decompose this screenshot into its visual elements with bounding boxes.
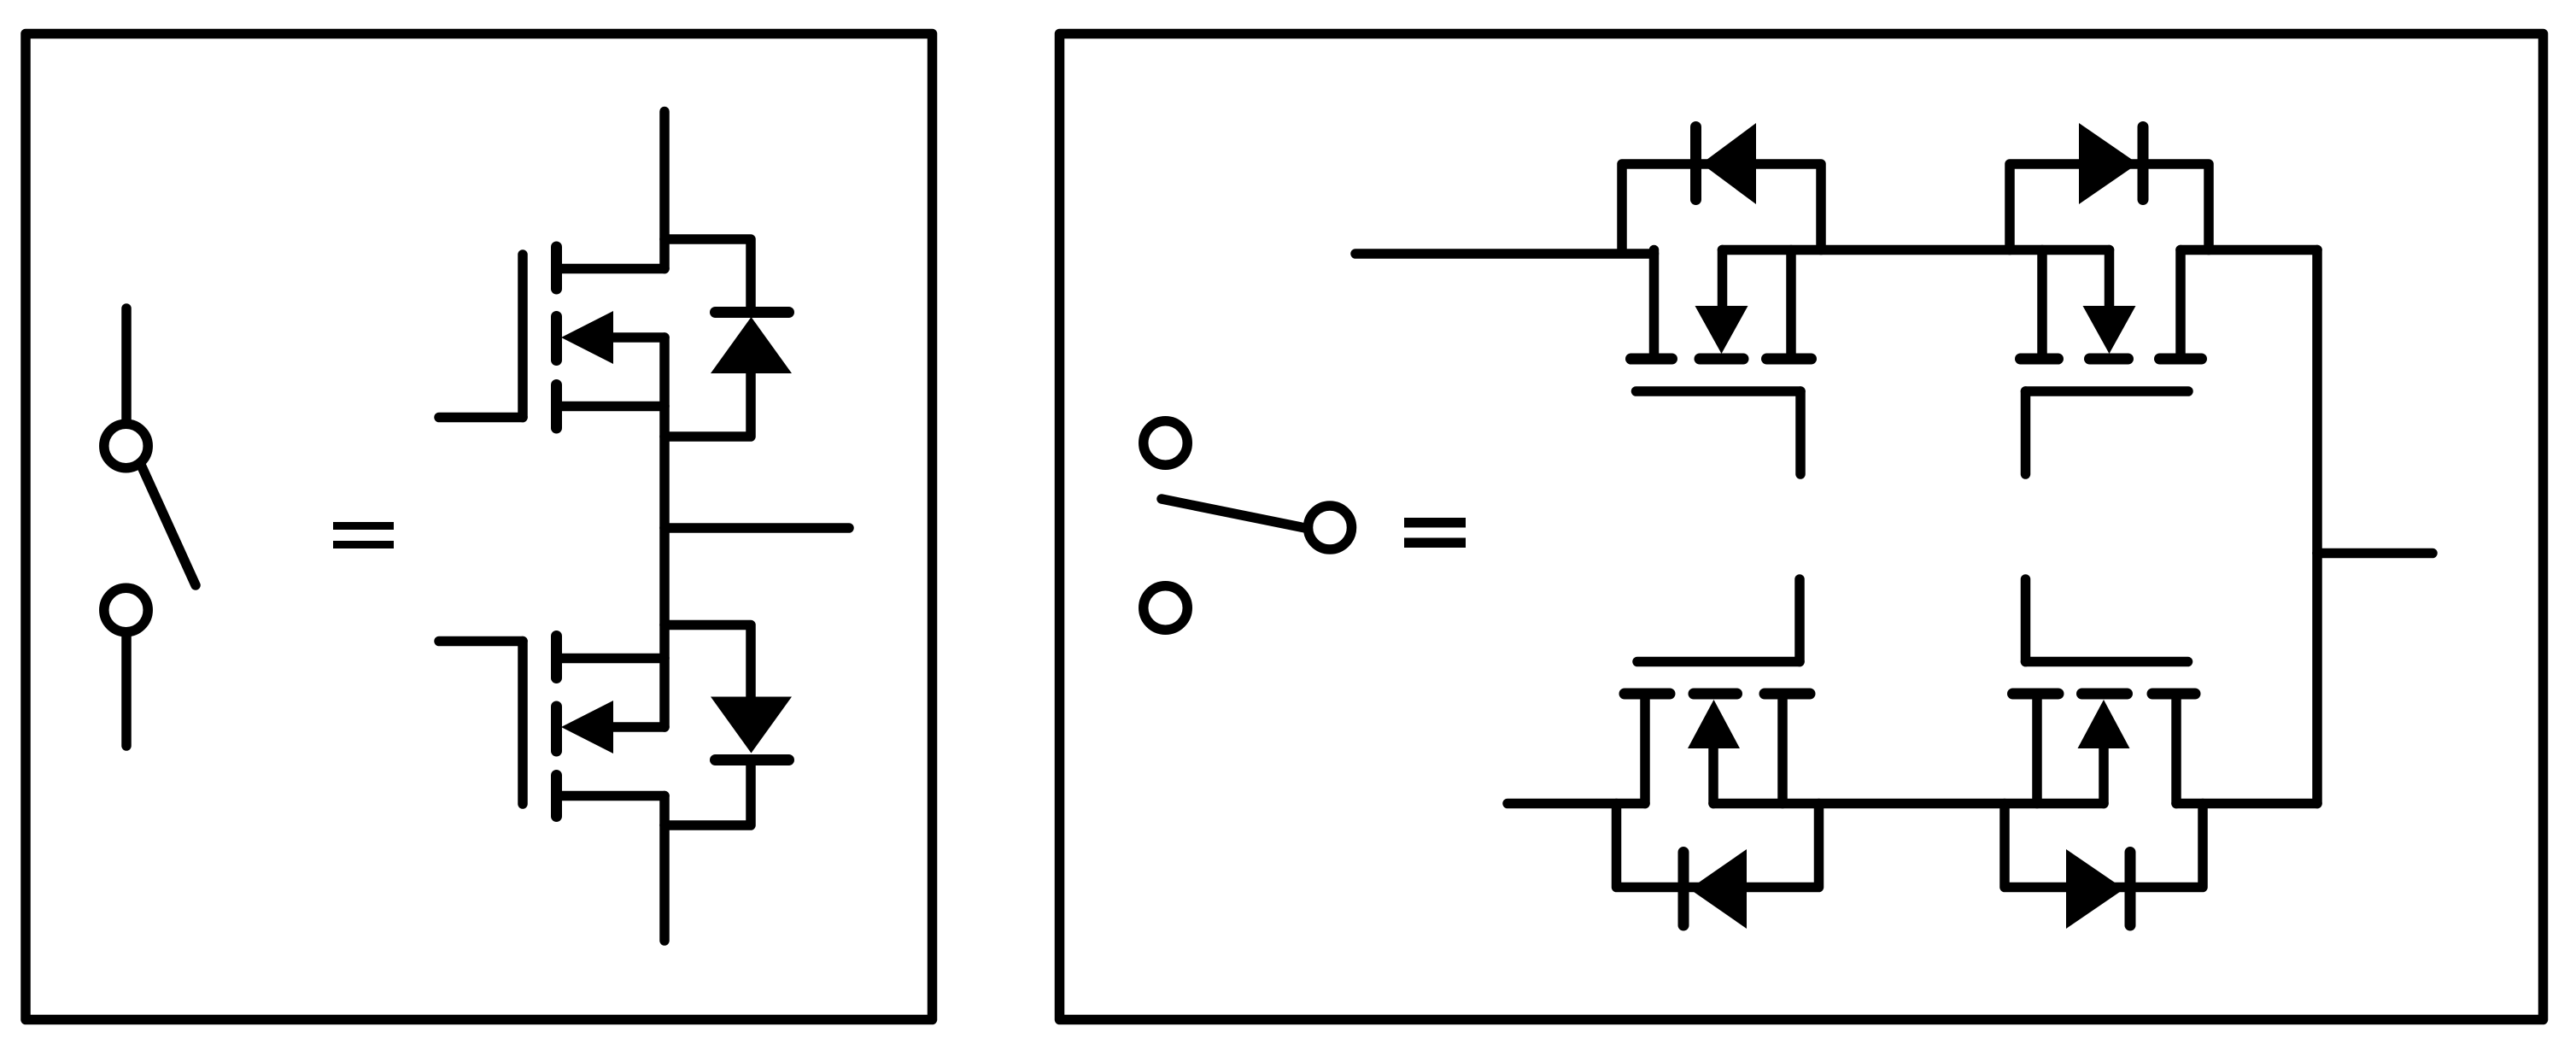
transistor Q5 body arrow shaft xyxy=(1708,748,1718,804)
transistor Q5 source contact xyxy=(1777,700,1788,804)
transistor Q4 channel dash 1 xyxy=(2021,354,2058,365)
switch S2 lever xyxy=(1162,499,1305,528)
transistor Q3 channel dash 3 xyxy=(1767,354,1812,365)
transistor Q1 channel dash 3 xyxy=(551,385,562,429)
body diode D1 cathode bar xyxy=(716,307,789,318)
transistor Q2 source contact xyxy=(557,654,665,664)
body diode D4 loop wires xyxy=(2010,164,2209,250)
transistor Q5 body arrow head xyxy=(1688,700,1740,748)
transistor Q4 body arrow head xyxy=(2083,306,2136,354)
transistor Q2 drain contact xyxy=(557,791,665,801)
transistor Q1 channel dash 1 xyxy=(551,247,562,289)
transistor Q3 drain lead wire xyxy=(1355,249,1654,259)
body diode D1 anode-cathode loop wires xyxy=(664,239,751,312)
transistor Q2 gate lead xyxy=(439,636,523,647)
transistor Q1 drain wire xyxy=(659,112,670,269)
transistor Q1 gate bar xyxy=(518,255,528,418)
right figure border frame xyxy=(1060,34,2544,1020)
transistor Q4 gate bar xyxy=(2026,386,2189,396)
transistor Q6 channel dash 1 xyxy=(2013,689,2059,700)
body diode D2 anode loop wire xyxy=(664,760,751,826)
body diode D5 triangle xyxy=(1689,849,1747,929)
transistor Q3 gate lead xyxy=(1795,391,1806,474)
transistor Q4 body arrow shaft xyxy=(2105,250,2115,307)
transistor Q3 drain contact xyxy=(1649,250,1660,355)
node C drain-drain wire (Q4-Q6) xyxy=(2312,250,2322,804)
transistor Q6 gate bar xyxy=(2026,657,2188,667)
transistor Q4 source contact xyxy=(2037,250,2047,355)
equals sign (right figure) xyxy=(1404,518,1466,528)
transistor Q5 drain contact xyxy=(1640,700,1650,804)
transistor Q3 body arrow shaft xyxy=(1718,250,1728,307)
body diode D1 triangle xyxy=(711,317,792,373)
equals sign (left figure) xyxy=(333,522,394,530)
body diode D2 cathode bar xyxy=(716,754,789,765)
switch S2 pole circle right xyxy=(1308,506,1352,549)
transistor Q2 channel dash 1 xyxy=(551,636,562,678)
transistor Q6 channel dash 2 xyxy=(2082,689,2128,700)
left figure border frame xyxy=(26,34,933,1020)
switch S1 top terminal circle xyxy=(104,424,148,467)
switch S1 top terminal wire xyxy=(121,308,132,424)
transistor Q2 channel dash 3 xyxy=(551,776,562,817)
switch S1 bottom terminal wire xyxy=(121,636,132,746)
transistor Q3 channel dash 2 xyxy=(1700,354,1743,365)
body diode D6 loop wires xyxy=(2005,804,2203,888)
body diode D3 triangle xyxy=(1701,123,1756,204)
transistor Q3 source contact xyxy=(1786,250,1796,355)
body diode D1 lower wire xyxy=(664,373,751,437)
transistor Q2 channel dash 2 xyxy=(551,707,562,751)
transistor Q4 channel dash 2 xyxy=(2090,354,2128,365)
transistor Q1 source contact xyxy=(557,402,665,412)
body diode D2 upper wire xyxy=(664,625,751,697)
transistor Q6 drain contact xyxy=(2171,700,2181,804)
transistor Q5 gate bar xyxy=(1637,657,1800,667)
transistor Q2 drain wire xyxy=(659,796,670,941)
switch S2 terminal circle upper-left xyxy=(1144,421,1188,466)
body diode D3 loop wires xyxy=(1622,164,1821,250)
body diode D4 cathode bar xyxy=(2138,127,2149,200)
transistor Q5 channel dash 3 xyxy=(1765,689,1810,700)
switch S1 lever (open) xyxy=(141,465,196,585)
transistor Q2 gate bar xyxy=(518,642,528,805)
transistor Q1 channel dash 2 xyxy=(551,317,562,361)
transistor Q6 body arrow shaft xyxy=(2099,748,2109,804)
transistor Q3 gate bar xyxy=(1636,386,1801,396)
body diode D6 triangle xyxy=(2066,849,2124,929)
transistor Q4 drain contact xyxy=(2175,250,2186,355)
body diode D6 cathode bar xyxy=(2125,853,2136,926)
node A common-source wire (Q1-Q2) xyxy=(659,337,670,727)
transistor Q3 channel dash 1 xyxy=(1631,354,1672,365)
body diode D5 loop wires xyxy=(1617,804,1819,888)
transistor Q1 gate lead xyxy=(439,413,523,423)
transistor Q6 source contact xyxy=(2032,700,2042,804)
transistor Q2 body wire xyxy=(610,722,664,732)
body diode D2 triangle xyxy=(711,697,792,754)
transistor Q1 drain contact xyxy=(557,264,665,274)
transistor Q2 body arrow head xyxy=(561,701,613,754)
switch S1 bottom terminal circle xyxy=(104,588,148,631)
body diode D4 triangle xyxy=(2079,123,2138,204)
node D common-source rail (Q5-Q6) xyxy=(1713,799,2104,809)
transistor Q5 channel dash 1 xyxy=(1625,689,1670,700)
body diode D5 cathode bar xyxy=(1678,853,1689,926)
transistor Q5 gate lead xyxy=(1794,579,1805,662)
transistor Q1 body arrow head xyxy=(561,311,613,364)
body diode D3 cathode bar xyxy=(1690,127,1701,200)
switch S2 terminal circle lower-left xyxy=(1144,586,1188,631)
transistor Q6 gate lead xyxy=(2021,579,2031,662)
transistor Q3 body arrow head xyxy=(1695,306,1748,354)
transistor Q6 body arrow head xyxy=(2078,700,2130,748)
transistor Q6 drain lead wire xyxy=(2176,799,2317,809)
output wire (right figure) xyxy=(2317,548,2433,559)
output wire (left figure) xyxy=(664,523,849,533)
transistor Q6 channel dash 3 xyxy=(2152,689,2195,700)
transistor Q5 channel dash 2 xyxy=(1694,689,1737,700)
transistor Q4 drain lead wire xyxy=(2181,245,2317,255)
transistor Q4 channel dash 3 xyxy=(2160,354,2202,365)
node B common-source rail (Q3-Q4) xyxy=(1723,245,2110,255)
transistor Q1 body wire xyxy=(610,332,664,343)
transistor Q5 drain lead wire xyxy=(1508,799,1645,809)
transistor Q4 gate lead xyxy=(2021,391,2031,474)
